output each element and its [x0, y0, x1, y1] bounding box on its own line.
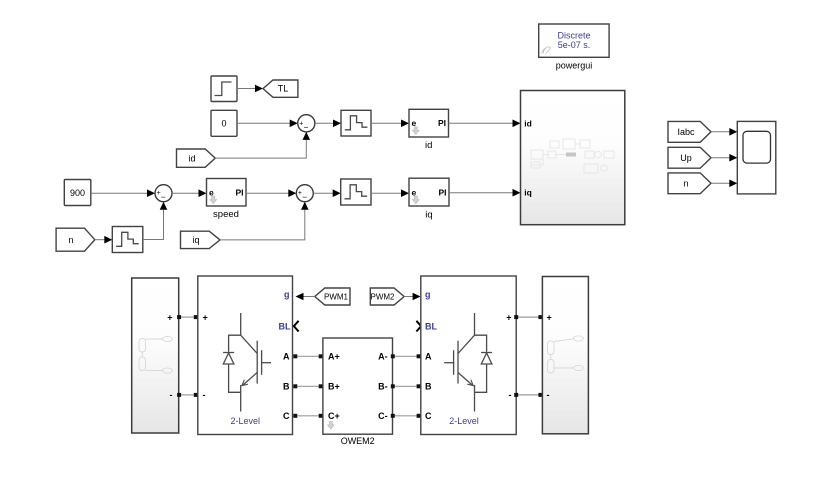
svg-text:Iabc: Iabc: [677, 127, 695, 137]
svg-text:B: B: [283, 382, 290, 392]
subsystem OWEM2: [323, 338, 393, 446]
wire stair3 to PI iq: [371, 189, 409, 197]
svg-text:id: id: [188, 153, 195, 163]
from tag Iabc: [668, 121, 711, 142]
svg-text:A-: A-: [378, 352, 388, 362]
svg-text:PWM1: PWM1: [324, 293, 349, 302]
wire 900 to sum speed: [91, 189, 155, 197]
sum junction iq loop: [296, 185, 313, 202]
svg-text:g: g: [425, 290, 431, 300]
wire PWM1 to g: [296, 293, 315, 301]
svg-text:Discrete: Discrete: [557, 30, 590, 40]
converter 2-Level left: [198, 276, 293, 435]
wire 0 to sum: [237, 120, 298, 128]
igbt diode icon right: [444, 313, 492, 412]
block Constant 900: [64, 180, 91, 206]
goto tag TL: [263, 80, 298, 97]
svg-text:n: n: [683, 179, 688, 189]
svg-text:powergui: powergui: [556, 61, 593, 71]
block staircase1: [341, 110, 371, 136]
block staircase2: [112, 227, 143, 253]
port wire C left: [293, 414, 322, 418]
svg-text:-: -: [170, 390, 173, 400]
svg-text:-: -: [547, 390, 550, 400]
port wire C right: [391, 414, 421, 418]
svg-text:iq: iq: [425, 209, 432, 220]
svg-text:A+: A+: [328, 352, 340, 362]
port wire B right: [391, 384, 421, 388]
sum junction speed: [155, 185, 172, 202]
from tag id: [177, 149, 216, 167]
svg-text:+: +: [547, 313, 552, 323]
svg-text:PWM2: PWM2: [371, 293, 396, 302]
converter 2-Level right: [421, 276, 516, 435]
wire n2 to scope: [711, 180, 737, 188]
wire sum to PI speed: [172, 189, 207, 197]
svg-text:BL: BL: [425, 322, 437, 332]
from tag Up: [668, 147, 711, 168]
block Step: [211, 76, 237, 102]
wire PI iq to machine: [449, 189, 521, 197]
subsystem PI iq: [409, 178, 449, 220]
port wire A left: [293, 354, 322, 358]
block powergui: [539, 24, 609, 71]
svg-text:Up: Up: [680, 153, 692, 163]
wire Step to TL: [237, 85, 263, 93]
svg-text:PI: PI: [438, 118, 446, 128]
svg-text:n: n: [68, 235, 73, 245]
wire id to sum bottom: [215, 132, 310, 158]
svg-text:OWEM2: OWEM2: [341, 436, 375, 446]
wire sum to stair1: [315, 120, 341, 128]
svg-text:iq: iq: [192, 235, 199, 245]
port wire battery left minus: [177, 393, 198, 397]
wire Up to scope: [711, 154, 737, 162]
wire stair2 to sum speed bottom: [143, 202, 168, 240]
svg-text:+: +: [299, 120, 303, 127]
wire sum to stair3: [313, 189, 340, 197]
wire iq to sum bottom: [220, 202, 309, 240]
block Constant 0: [211, 110, 237, 136]
igbt diode icon left: [223, 313, 271, 412]
svg-text:A: A: [283, 352, 290, 362]
svg-text:+: +: [203, 313, 208, 323]
svg-text:0: 0: [221, 118, 226, 128]
svg-text:2-Level: 2-Level: [231, 416, 261, 426]
svg-text:900: 900: [70, 188, 85, 198]
wire n to stair2: [95, 236, 113, 244]
svg-text:C: C: [425, 411, 432, 421]
open port BL left: [294, 321, 299, 332]
wire Iabc to scope: [711, 128, 737, 136]
svg-text:2-Level: 2-Level: [449, 416, 479, 426]
svg-text:A: A: [425, 352, 432, 362]
subsystem battery left: [132, 278, 179, 433]
open port BL right: [416, 321, 421, 332]
port wire converter right minus: [514, 393, 542, 397]
svg-text:+: +: [167, 313, 172, 323]
svg-text:5e-07 s.: 5e-07 s.: [558, 40, 591, 50]
svg-text:PI: PI: [235, 187, 243, 197]
wire PWM2 to g: [404, 293, 421, 301]
from tag PWM2: [370, 288, 404, 305]
svg-text:C: C: [283, 411, 290, 421]
from tag iq: [181, 231, 221, 248]
svg-text:+: +: [506, 313, 511, 323]
svg-text:C+: C+: [328, 411, 340, 421]
port wire battery left plus: [177, 315, 198, 319]
svg-text:iq: iq: [524, 188, 532, 198]
svg-text:+: +: [157, 190, 161, 197]
port wire A right: [391, 354, 421, 358]
wire PI speed to sum iq: [246, 189, 296, 197]
subsystem battery right: [542, 277, 588, 434]
scope: [737, 121, 776, 193]
from tag n2: [668, 173, 711, 194]
subsystem PI id: [409, 109, 449, 151]
svg-text:-: -: [509, 390, 512, 400]
subsystem machine OWEM: [521, 91, 625, 225]
goto tag PWM1: [315, 288, 350, 305]
svg-text:id: id: [524, 118, 532, 128]
svg-text:PI: PI: [438, 187, 446, 197]
sum junction id loop: [298, 115, 315, 132]
svg-text:id: id: [425, 140, 432, 151]
from tag n: [56, 228, 95, 251]
svg-text:B: B: [425, 382, 432, 392]
svg-text:g: g: [284, 290, 290, 300]
subsystem PI speed: [207, 179, 247, 221]
svg-text:+: +: [298, 190, 302, 197]
svg-text:BL: BL: [279, 322, 291, 332]
svg-text:-: -: [203, 390, 206, 400]
port wire B left: [293, 384, 322, 388]
svg-text:speed: speed: [213, 209, 239, 220]
svg-text:C-: C-: [378, 411, 388, 421]
port wire converter right plus: [514, 315, 542, 319]
svg-text:TL: TL: [278, 84, 289, 94]
svg-text:B+: B+: [328, 382, 340, 392]
wire stair1 to PI id: [371, 120, 409, 128]
wire PI id to machine: [449, 120, 521, 128]
svg-text:B-: B-: [378, 382, 388, 392]
block staircase3: [341, 179, 371, 205]
